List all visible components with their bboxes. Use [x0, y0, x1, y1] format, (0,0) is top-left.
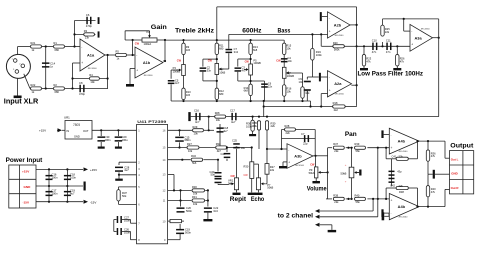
svg-text:6k8: 6k8: [253, 48, 258, 52]
svg-text:10kB: 10kB: [219, 70, 225, 74]
svg-text:R30: R30: [244, 165, 249, 169]
svg-text:22k: 22k: [334, 149, 339, 153]
svg-text:680: 680: [55, 90, 60, 94]
svg-text:C41: C41: [392, 155, 397, 159]
svg-text:47n: 47n: [372, 50, 377, 54]
svg-text:JRC4560: JRC4560: [398, 151, 408, 153]
svg-text:C8: C8: [79, 81, 83, 85]
svg-text:43p: 43p: [397, 169, 402, 173]
svg-text:1n: 1n: [50, 65, 53, 69]
svg-text:47n: 47n: [386, 50, 391, 54]
svg-text:JRC4560: JRC4560: [335, 94, 345, 96]
svg-text:A2a: A2a: [334, 81, 342, 86]
svg-text:4u7: 4u7: [70, 191, 75, 195]
svg-text:22n: 22n: [268, 84, 273, 88]
svg-text:10k: 10k: [90, 80, 95, 84]
svg-text:Out R: Out R: [451, 186, 460, 190]
svg-text:Bass: Bass: [278, 28, 291, 35]
svg-text:22k: 22k: [271, 124, 276, 128]
svg-text:100kA: 100kA: [144, 42, 152, 46]
svg-text:R20: R20: [333, 41, 338, 45]
svg-text:-: -: [81, 45, 82, 49]
svg-text:50k: 50k: [228, 182, 233, 186]
svg-text:Treble 2kHz: Treble 2kHz: [175, 28, 215, 35]
svg-text:7805: 7805: [73, 123, 80, 127]
svg-text:C24: C24: [221, 152, 226, 156]
svg-text:R27: R27: [187, 142, 192, 146]
svg-text:R38: R38: [399, 190, 404, 194]
svg-text:47k: 47k: [431, 190, 436, 194]
svg-text:470p: 470p: [86, 24, 92, 28]
svg-text:22k: 22k: [286, 131, 291, 135]
svg-text:4u7: 4u7: [124, 168, 129, 172]
svg-text:JRC4560: JRC4560: [398, 217, 408, 219]
svg-text:R31: R31: [192, 195, 197, 199]
svg-text:GND: GND: [24, 185, 32, 189]
svg-text:+: +: [329, 89, 331, 93]
svg-text:GND: GND: [74, 135, 80, 139]
svg-text:47k: 47k: [431, 154, 436, 158]
svg-text:JRC4560: JRC4560: [88, 68, 98, 70]
svg-text:100n: 100n: [70, 175, 76, 179]
svg-text:4n7: 4n7: [242, 68, 247, 72]
svg-text:C16: C16: [194, 109, 199, 113]
svg-text:4n7: 4n7: [175, 81, 180, 85]
svg-text:Gain: Gain: [151, 24, 167, 31]
svg-text:22k: 22k: [385, 30, 390, 34]
svg-text:+: +: [391, 198, 393, 202]
svg-text:CW: CW: [276, 59, 281, 62]
svg-text:P2: P2: [147, 30, 151, 34]
svg-text:4u7: 4u7: [223, 129, 228, 133]
svg-text:10k: 10k: [286, 46, 291, 50]
svg-text:C11: C11: [386, 39, 391, 43]
svg-text:10k: 10k: [188, 149, 193, 153]
svg-text:Input XLR: Input XLR: [4, 99, 39, 106]
svg-text:C10: C10: [372, 39, 377, 43]
svg-text:Out L: Out L: [451, 158, 459, 162]
svg-text:JRC4560: JRC4560: [421, 29, 431, 31]
svg-text:50k: 50k: [122, 194, 127, 198]
svg-text:R18: R18: [333, 101, 338, 105]
svg-text:Low Pass Filter 100Hz: Low Pass Filter 100Hz: [358, 71, 424, 78]
svg-text:680: 680: [55, 48, 60, 52]
svg-text:10k: 10k: [193, 202, 198, 206]
svg-text:-: -: [391, 211, 392, 215]
svg-text:3n3: 3n3: [213, 209, 218, 213]
svg-text:GND: GND: [451, 172, 457, 176]
svg-text:10n: 10n: [288, 59, 293, 63]
svg-text:47k: 47k: [366, 60, 371, 64]
svg-text:-: -: [288, 148, 289, 152]
svg-text:5k6: 5k6: [192, 161, 197, 165]
svg-text:10k: 10k: [287, 90, 292, 94]
svg-text:100n: 100n: [52, 175, 58, 179]
svg-text:C42: C42: [390, 183, 395, 187]
svg-text:Power Input: Power Input: [6, 157, 44, 164]
svg-text:A4b: A4b: [398, 204, 406, 209]
svg-text:R21: R21: [31, 41, 36, 45]
svg-text:+15V: +15V: [39, 129, 46, 133]
svg-text:47k: 47k: [400, 60, 405, 64]
svg-text:10k: 10k: [216, 118, 221, 122]
svg-text:10u: 10u: [241, 146, 246, 150]
svg-text:C7: C7: [301, 132, 305, 136]
svg-text:+: +: [391, 146, 393, 150]
svg-text:CW: CW: [310, 164, 315, 167]
svg-text:50n: 50n: [211, 173, 216, 177]
svg-text:2k2: 2k2: [334, 108, 339, 112]
svg-text:R2: R2: [54, 83, 58, 87]
svg-text:R29: R29: [193, 125, 198, 129]
svg-text:Output: Output: [450, 143, 474, 150]
svg-text:JRC4560: JRC4560: [334, 35, 344, 37]
svg-text:13k: 13k: [85, 36, 90, 40]
svg-text:R37: R37: [333, 142, 338, 146]
svg-text:4u7: 4u7: [231, 120, 236, 124]
svg-text:Repit: Repit: [230, 196, 247, 203]
svg-text:100k: 100k: [251, 125, 257, 128]
svg-text:R28: R28: [215, 111, 220, 115]
svg-text:R22: R22: [31, 83, 36, 87]
svg-text:JRC4560: JRC4560: [295, 165, 305, 167]
svg-text:500n: 500n: [186, 209, 192, 213]
svg-text:22k: 22k: [334, 200, 339, 204]
svg-text:A1a: A1a: [87, 52, 95, 57]
svg-text:C6: C6: [86, 13, 90, 17]
svg-text:100n: 100n: [124, 218, 130, 222]
svg-text:+15V: +15V: [22, 169, 30, 173]
svg-text:50kB: 50kB: [341, 172, 347, 176]
svg-text:A2b: A2b: [334, 22, 342, 27]
svg-text:22k: 22k: [399, 155, 404, 159]
svg-text:50kB: 50kB: [267, 186, 273, 190]
svg-text:22p: 22p: [303, 142, 308, 146]
svg-text:-15V: -15V: [23, 200, 30, 204]
svg-text:R32: R32: [191, 154, 196, 158]
svg-text:600Hz: 600Hz: [242, 28, 262, 35]
svg-text:-15V: -15V: [90, 200, 96, 204]
svg-text:680: 680: [219, 46, 224, 50]
svg-text:-: -: [411, 29, 412, 33]
svg-text:680n: 680n: [185, 138, 191, 142]
svg-text:CW: CW: [135, 43, 140, 46]
svg-text:R40: R40: [355, 193, 360, 197]
svg-text:100kB: 100kB: [287, 74, 295, 78]
svg-text:R5: R5: [116, 50, 120, 54]
svg-text:A3b: A3b: [294, 153, 302, 158]
svg-text:4k7: 4k7: [217, 149, 222, 153]
svg-text:A4b: A4b: [398, 138, 406, 143]
svg-text:CW: CW: [245, 60, 250, 63]
svg-text:1k5: 1k5: [186, 93, 191, 97]
svg-text:R39: R39: [355, 142, 360, 146]
svg-text:-: -: [329, 75, 330, 79]
svg-text:+15V: +15V: [90, 168, 97, 172]
svg-text:+: +: [411, 42, 413, 46]
svg-text:10n: 10n: [299, 80, 304, 84]
svg-text:to 2 chanel: to 2 chanel: [278, 213, 314, 220]
svg-text:-: -: [391, 133, 392, 137]
svg-text:22k: 22k: [270, 168, 275, 172]
svg-text:100n: 100n: [124, 230, 130, 234]
svg-text:R30: R30: [192, 185, 197, 189]
svg-text:1k5: 1k5: [186, 48, 191, 52]
svg-text:100n: 100n: [52, 191, 58, 195]
svg-text:CW: CW: [244, 174, 249, 177]
svg-text:100kB: 100kB: [253, 61, 261, 65]
svg-text:UR1: UR1: [64, 116, 70, 120]
svg-text:+: +: [81, 61, 83, 65]
svg-text:100u: 100u: [122, 138, 128, 142]
svg-text:Pan: Pan: [345, 131, 357, 138]
svg-text:-: -: [136, 53, 137, 57]
svg-text:10k: 10k: [194, 132, 199, 136]
svg-text:R1: R1: [54, 41, 58, 45]
svg-text:+: +: [136, 68, 138, 72]
svg-text:33n: 33n: [207, 68, 212, 72]
svg-text:56k: 56k: [356, 200, 361, 204]
svg-text:A3a: A3a: [415, 35, 423, 40]
svg-text:56k: 56k: [356, 149, 361, 153]
svg-text:+: +: [288, 160, 290, 164]
svg-text:-: -: [329, 17, 330, 21]
svg-text:A1b: A1b: [143, 60, 151, 65]
svg-text:R28: R28: [285, 124, 290, 128]
svg-text:R38: R38: [333, 193, 338, 197]
svg-text:R34: R34: [216, 142, 221, 146]
svg-text:100n: 100n: [105, 138, 111, 142]
svg-text:4n7: 4n7: [195, 120, 200, 124]
svg-text:470p: 470p: [79, 92, 85, 96]
svg-text:U41 PT2399: U41 PT2399: [137, 119, 167, 124]
svg-text:100k: 100k: [316, 53, 322, 57]
svg-text:Echo: Echo: [251, 196, 264, 203]
svg-text:CW: CW: [208, 59, 213, 62]
svg-text:50kA: 50kA: [309, 171, 315, 175]
svg-text:Volume: Volume: [307, 186, 327, 193]
svg-text:C25: C25: [232, 139, 237, 143]
svg-text:22k: 22k: [399, 184, 404, 188]
svg-text:JRC4560: JRC4560: [143, 75, 153, 77]
svg-text:6k8: 6k8: [244, 89, 249, 93]
svg-text:R3: R3: [84, 29, 88, 33]
svg-text:3n3: 3n3: [234, 50, 239, 54]
svg-text:CW: CW: [231, 175, 236, 178]
svg-text:CW: CW: [177, 60, 182, 63]
svg-text:R4: R4: [89, 73, 93, 77]
svg-text:OUT: OUT: [83, 129, 89, 133]
svg-text:IN: IN: [67, 129, 70, 133]
svg-text:680: 680: [219, 92, 224, 96]
svg-text:560k: 560k: [334, 48, 340, 52]
svg-text:P3: P3: [173, 66, 177, 70]
svg-text:500n: 500n: [185, 231, 191, 235]
svg-text:C17: C17: [230, 109, 235, 113]
svg-text:+: +: [329, 30, 331, 34]
